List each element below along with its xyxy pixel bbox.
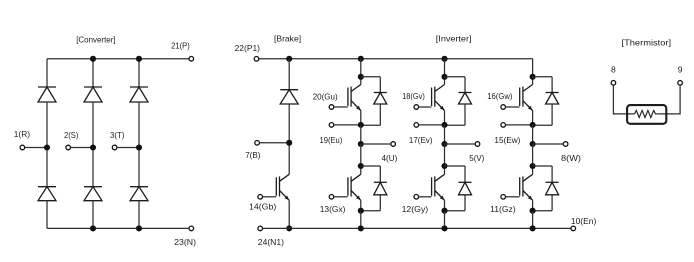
svg-text:13(Gx): 13(Gx): [320, 204, 346, 214]
wire gate Gy: [419, 196, 432, 198]
wire gate Gz: [506, 196, 520, 198]
wire U upper diode return: [379, 104, 381, 125]
terminal 17(Ev): [414, 123, 419, 128]
terminal 14(Gb): [258, 195, 263, 200]
wire W lower diode branch bottom: [533, 210, 553, 212]
terminal 12(Gy): [414, 195, 419, 200]
wire W to bottom bus: [532, 211, 534, 229]
svg-text:16(Gw): 16(Gw): [487, 91, 512, 101]
transistor Q4 lower U IGBT: [348, 174, 361, 200]
wire U to bottom bus: [360, 211, 362, 229]
diode D15 freewheel lower V: [459, 182, 472, 195]
wire W lower emitter: [532, 200, 534, 210]
diode D5 converter lower (N to S): [84, 187, 102, 201]
wire converter column R bottom: [46, 201, 48, 229]
wire V lower emitter: [444, 200, 446, 210]
svg-text:21(P): 21(P): [171, 41, 190, 51]
wire phase W output: [533, 143, 564, 145]
svg-text:19(Eu): 19(Eu): [320, 135, 343, 145]
svg-text:1(R): 1(R): [14, 129, 30, 139]
wire V upper diode return: [464, 104, 466, 125]
terminal 9: [678, 81, 683, 86]
wire V upper emitter: [444, 111, 446, 125]
node phase W: [530, 141, 536, 147]
wire converter column S bottom: [92, 201, 94, 229]
wire W upper diode branch top: [533, 76, 553, 78]
terminal 8: [611, 81, 616, 86]
wire 3(T) to column: [117, 147, 139, 149]
wire thermistor left: [613, 85, 634, 114]
wire W upper diode return: [551, 104, 553, 125]
terminal 3(T): [112, 145, 117, 150]
transistor Q6 lower W IGBT: [520, 174, 533, 200]
wire converter top bus P: [47, 58, 189, 60]
terminal 24(N1): [258, 226, 263, 231]
wire converter column S top: [92, 59, 94, 87]
svg-text:[Inverter]: [Inverter]: [436, 33, 472, 43]
wire emitter sense Ew: [506, 124, 533, 126]
transistor Q7 brake IGBT: [276, 174, 289, 200]
wire 1(R) to column: [25, 147, 47, 149]
wire U to phase node: [360, 125, 362, 144]
wire W upper diode branch bottom: [533, 124, 553, 126]
wire converter column T middle: [138, 102, 140, 187]
wire W lower diode branch top: [533, 165, 553, 167]
junction top bus at phase V: [441, 56, 447, 62]
wire U upper diode branch top: [361, 76, 381, 78]
junction converter top bus at T: [136, 56, 142, 62]
wire U lower diode branch bottom: [361, 210, 381, 212]
terminal 13(Gx): [329, 195, 334, 200]
terminal 15(Ew): [501, 123, 506, 128]
transistor Q2 upper V IGBT: [432, 85, 445, 111]
wire V lower diode return: [464, 195, 466, 211]
wire emitter sense Eu: [334, 124, 361, 126]
wire thermistor right: [657, 85, 680, 114]
terminal 4(U): [391, 142, 396, 147]
wire converter column S middle: [92, 102, 94, 187]
junction converter bottom bus at S: [90, 225, 96, 231]
svg-text:5(V): 5(V): [469, 153, 484, 163]
terminal 22(P1): [254, 57, 259, 62]
diode D13 freewheel upper W: [546, 93, 559, 105]
node U lower collector branch: [358, 163, 364, 169]
svg-text:8(W): 8(W): [561, 153, 581, 163]
svg-text:[Converter]: [Converter]: [76, 35, 115, 45]
wire emitter sense Ev: [419, 124, 445, 126]
diode D12 freewheel upper V: [459, 93, 472, 105]
diode D2 converter upper (S to P): [84, 87, 102, 102]
svg-text:2(S): 2(S): [64, 130, 79, 140]
wire 2(S) to column: [71, 147, 94, 149]
thermistor TH1 element: [635, 110, 658, 117]
diode D3 converter upper (T to P): [130, 87, 148, 102]
node phase U: [358, 141, 364, 147]
wire U upper emitter: [360, 111, 362, 125]
wire P1 bus (brake to inverter): [259, 58, 533, 60]
wire phase U output: [361, 143, 391, 145]
wire brake diode top: [288, 59, 290, 90]
wire gate Gb: [263, 196, 277, 198]
wire U lower emitter: [360, 200, 362, 210]
transistor Q1 upper U IGBT: [348, 85, 361, 111]
svg-text:20(Gu): 20(Gu): [313, 91, 338, 101]
node U lower emitter junction: [358, 208, 364, 214]
wire gate Gu: [334, 106, 348, 108]
svg-text:18(Gv): 18(Gv): [402, 91, 425, 101]
node V upper emitter junction: [441, 122, 447, 128]
wire V lower diode drop: [464, 166, 466, 182]
wire W upper diode drop: [551, 77, 553, 93]
terminal 23(N): [189, 226, 194, 231]
diode D16 freewheel lower W: [546, 182, 559, 195]
terminal 16(Gw): [501, 105, 506, 110]
node S junction: [90, 144, 96, 150]
transistor Q5 lower V IGBT: [432, 174, 445, 200]
node V upper collector branch: [441, 74, 447, 80]
svg-text:[Thermistor]: [Thermistor]: [622, 37, 672, 47]
wire V upper diode branch top: [445, 76, 466, 78]
wire phase V output: [445, 143, 476, 145]
terminal 8(W): [563, 142, 568, 147]
node N1 junction at brake: [286, 225, 292, 231]
wire converter column T top: [138, 59, 140, 87]
transistor Q3 upper W IGBT: [520, 85, 533, 111]
node U upper collector branch: [358, 74, 364, 80]
junction bottom bus at V: [441, 225, 447, 231]
wire W lower collector: [532, 144, 534, 174]
node W lower collector branch: [530, 163, 536, 169]
wire brake emitter to N1 bus: [288, 200, 290, 228]
svg-text:11(Gz): 11(Gz): [490, 204, 516, 214]
wire W lower diode drop: [551, 166, 553, 182]
junction converter bottom bus at T: [136, 225, 142, 231]
svg-text:7(B): 7(B): [245, 150, 260, 160]
node P1 junction at brake: [286, 56, 292, 62]
wire U upper diode drop: [379, 77, 381, 93]
wire W to phase node: [532, 125, 534, 144]
wire V to bottom bus: [444, 211, 446, 229]
diode D14 freewheel lower U: [374, 182, 387, 195]
svg-text:24(N1): 24(N1): [258, 237, 284, 247]
terminal 18(Gv): [414, 105, 419, 110]
wire gate Gx: [334, 196, 348, 198]
terminal 20(Gu): [329, 105, 334, 110]
wire brake diode to B node: [288, 104, 290, 174]
svg-text:12(Gy): 12(Gy): [402, 204, 429, 214]
node U upper emitter junction: [358, 122, 364, 128]
node W upper emitter junction: [530, 122, 536, 128]
terminal 1(R): [20, 145, 25, 150]
diode D1 converter upper (R to P): [38, 87, 56, 102]
terminal 7(B): [255, 141, 260, 146]
wire V lower diode branch bottom: [445, 210, 466, 212]
svg-text:14(Gb): 14(Gb): [249, 202, 276, 212]
node R junction: [44, 144, 50, 150]
wire U upper collector: [360, 59, 362, 85]
terminal 2(S): [66, 145, 71, 150]
node V lower collector branch: [441, 163, 447, 169]
node phase V: [441, 141, 447, 147]
wire gate Gw: [506, 106, 520, 108]
terminal 19(Eu): [329, 123, 334, 128]
terminal 11(Gz): [501, 195, 506, 200]
wire W upper collector: [532, 59, 534, 85]
wire V lower diode branch top: [445, 165, 466, 167]
junction converter top bus at S: [90, 56, 96, 62]
wire W upper emitter: [532, 111, 534, 125]
node W lower emitter junction: [530, 208, 536, 214]
wire V lower collector: [444, 144, 446, 174]
wire V upper diode branch bottom: [445, 124, 466, 126]
svg-text:8: 8: [611, 65, 616, 75]
terminal 5(V): [475, 142, 480, 147]
junction bottom bus at W: [530, 225, 536, 231]
diode D6 converter lower (N to T): [130, 187, 148, 201]
svg-text:4(U): 4(U): [382, 153, 398, 163]
wire U lower collector: [360, 144, 362, 174]
junction top bus at phase U: [358, 56, 364, 62]
node W upper collector branch: [530, 74, 536, 80]
node T junction: [136, 144, 142, 150]
wire converter bottom bus N: [47, 227, 189, 229]
node B junction: [286, 140, 292, 146]
svg-text:[Brake]: [Brake]: [274, 34, 301, 44]
wire N1 bus (bottom rail): [263, 227, 571, 229]
wire U lower diode return: [379, 195, 381, 211]
wire V upper diode drop: [464, 77, 466, 93]
wire W lower diode return: [551, 195, 553, 211]
wire converter column R middle: [46, 102, 48, 187]
terminal 21(P): [189, 57, 194, 62]
wire U lower diode drop: [379, 166, 381, 182]
node V lower emitter junction: [441, 208, 447, 214]
terminal 10(En): [571, 226, 576, 231]
wire 7(B) to column: [259, 142, 289, 144]
wire U upper diode branch bottom: [361, 124, 381, 126]
svg-text:17(Ev): 17(Ev): [409, 135, 433, 145]
diode D7 brake: [280, 90, 298, 104]
wire V upper collector: [444, 59, 446, 85]
wire U lower diode branch top: [361, 165, 381, 167]
diode D11 freewheel upper U: [374, 93, 387, 105]
svg-text:3(T): 3(T): [110, 130, 125, 140]
svg-text:15(Ew): 15(Ew): [494, 135, 520, 145]
junction bottom bus at U: [358, 225, 364, 231]
svg-text:10(En): 10(En): [571, 216, 597, 226]
wire gate Gv: [419, 106, 432, 108]
svg-text:22(P1): 22(P1): [235, 43, 261, 53]
wire converter column T bottom: [138, 201, 140, 229]
wire converter column R top: [46, 59, 48, 87]
svg-text:23(N): 23(N): [174, 237, 196, 247]
wire V to phase node: [444, 125, 446, 144]
svg-text:9: 9: [678, 65, 683, 75]
thermistor TH1 case: [627, 105, 666, 124]
diode D4 converter lower (N to R): [38, 187, 56, 201]
